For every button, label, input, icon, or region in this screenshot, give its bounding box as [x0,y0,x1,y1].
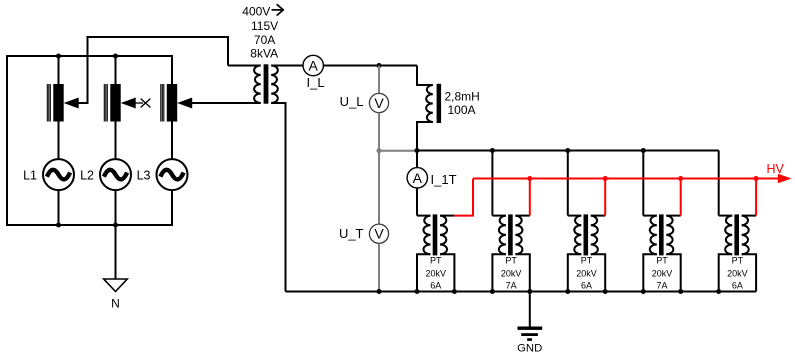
inductor L winding [426,85,433,122]
wire: PT4 primary top terminal [643,215,657,217]
transformer T secondary winding [271,66,278,104]
node: bus-gray junction [414,148,419,153]
wire: HV primary top bus [417,150,719,152]
node: red junction [527,176,532,181]
node: PT5 bottom-left junction [716,289,721,294]
wire: gray mid segment [378,113,380,225]
svg-text:100A: 100A [448,103,476,117]
wire: red riser [680,179,682,216]
source L3 sine [160,170,183,180]
svg-text:GND: GND [517,343,542,355]
wire: transformer T primary top terminal [228,65,261,67]
wire: PT2 secondary bottom to bus [515,254,529,291]
PT3 core [584,214,589,255]
wire: PT1 primary bottom to bus [417,254,431,291]
wire: phase L2 vertical [115,56,117,225]
wire: secondary bottom bus [286,291,757,293]
node: L2 bottom junction [113,222,118,227]
wire: PT1 secondary bottom to bus [440,254,454,291]
PT2 core [508,214,513,255]
wire: red riser [755,179,757,216]
node: gray to bottom bus [376,289,381,294]
svg-text:U_T: U_T [339,226,364,241]
node: PT4 bottom-left junction [641,289,646,294]
svg-text:U_L: U_L [340,94,364,109]
node: red junction [603,176,608,181]
wire: red riser [604,179,606,216]
wire: inductor bottom to bus [417,122,433,151]
probe bar L2 [110,84,120,122]
PT4 secondary winding [666,216,673,255]
source L2 circle [100,159,131,190]
PT5 secondary winding [742,216,749,255]
wire: phase L1 vertical [58,56,60,225]
wire: PT5 secondary top terminal [742,215,756,217]
probe bar L1 [53,84,63,122]
node: PT3 bottom-right junction [603,289,608,294]
PT3 secondary winding [591,216,598,255]
node: PT1 bottom-left junction [414,289,419,294]
PT5 primary winding [725,216,732,255]
svg-text:PT: PT [732,255,744,265]
node: U_L tap junction [376,63,381,68]
wire: bus drop to PT5 [718,151,720,216]
svg-text:20kV: 20kV [501,268,522,278]
ammeter I_L circle [303,55,323,75]
svg-text:7A: 7A [656,281,667,291]
terminal N triangle [104,279,128,292]
wire: PT4 primary bottom to bus [643,254,657,291]
wire: source loop box [7,56,172,225]
source L1 circle [43,159,74,190]
svg-text:L3: L3 [137,169,151,183]
wire: PT3 primary bottom to bus [568,254,582,291]
probe hatch lines L2 [104,84,107,122]
wire: ground drop [529,292,531,328]
voltmeter U_T circle [369,224,388,243]
wire: bus drop to PT3 [567,151,569,216]
wire: T secondary top to ammeter [271,65,303,67]
svg-text:2,8mH: 2,8mH [445,89,480,103]
svg-text:A: A [413,170,423,186]
svg-text:6A: 6A [581,281,592,291]
svg-text:A: A [309,58,319,74]
svg-text:7A: 7A [506,281,517,291]
wire: L3 arrow tail to transformer primary bottom [192,102,261,104]
node: red junction [754,176,759,181]
svg-text:V: V [374,226,384,242]
wire: PT2 primary top terminal [492,215,506,217]
wire: L2 arrow tail stub [135,102,143,104]
wire: PT3 secondary top terminal [591,215,605,217]
node: bus junction [641,148,646,153]
svg-text:V: V [374,95,384,111]
probe arrow L1 [64,98,79,109]
node: PT2 bottom-left junction [490,289,495,294]
svg-text:6A: 6A [430,281,441,291]
wire: PT4 secondary bottom to bus [666,254,680,291]
svg-text:400V: 400V [242,5,270,19]
wire: PT1 primary top terminal [417,215,431,217]
PT1 core [433,214,438,255]
node: PT1 bottom-right junction [452,289,457,294]
node: bus junction [490,148,495,153]
svg-text:20kV: 20kV [652,268,673,278]
node: red junction [678,176,683,181]
arrow: HV [778,174,792,183]
PT3 primary winding [574,216,581,255]
wire: gray tap to bus [379,150,417,152]
wire: drop to ammeter I_1T [416,151,418,168]
PT4 core [659,214,664,255]
node: L2 top junction [113,53,118,58]
svg-text:PT: PT [656,255,668,265]
svg-text:8kVA: 8kVA [250,47,278,61]
PT1 secondary winding [440,216,447,255]
svg-text:20kV: 20kV [425,268,446,278]
ammeter I_1T circle [407,168,427,188]
wire: PT4 secondary top terminal [666,215,680,217]
wire: bus drop to PT2 [491,151,493,216]
voltmeter U_L circle [369,93,388,112]
svg-text:6A: 6A [732,281,743,291]
svg-text:HV: HV [767,162,785,176]
wire: gray lower segment [378,243,380,291]
svg-text:20kV: 20kV [576,268,597,278]
wire: PT2 secondary top terminal [515,215,529,217]
wire: T secondary bottom to bus [271,103,285,292]
svg-text:PT: PT [430,255,442,265]
transformer T primary winding [254,66,261,104]
node: gray tap [376,148,381,153]
PT2 primary winding [499,216,506,255]
svg-text:L1: L1 [23,169,37,183]
PT4 primary winding [650,216,657,255]
probe arrow L3 [177,98,192,109]
wire: PT3 primary top terminal [568,215,582,217]
PT1 primary winding [423,216,430,255]
inductor L core [437,84,442,123]
wire: PT5 primary bottom to bus [719,254,733,291]
probe bar L3 [167,84,177,122]
wire: gray voltmeter drop upper [378,66,380,94]
PT2 secondary winding [515,216,522,255]
node: PT2 bottom-right junction [527,289,532,294]
wire: PT3 secondary bottom to bus [591,254,605,291]
wire: red PT1 jog [454,179,473,216]
probe hatch lines L3 [161,84,164,122]
svg-text:PT: PT [505,255,517,265]
ground symbol [518,327,543,341]
probe arrow L2 [121,98,136,109]
node: PT3 bottom-left junction [565,289,570,294]
source L2 sine [104,170,127,180]
svg-text:I_L: I_L [307,75,325,90]
wire: down to inductor [417,66,433,86]
probe hatch lines L1 [47,84,50,122]
node: bus junction [565,148,570,153]
svg-text:115V: 115V [251,19,278,33]
svg-text:20kV: 20kV [727,268,748,278]
wire: PT1 secondary top terminal [440,215,454,217]
node: L1 top junction [56,53,61,58]
wire: L1 arrow tail to transformer primary top [78,37,228,103]
wire: ammeter to corner [323,65,417,67]
wire: red riser [529,179,531,216]
wire: PT5 secondary bottom to bus [742,254,756,291]
wire: bus drop to PT4 [642,151,644,216]
node: PT4 bottom-right junction [678,289,683,294]
mark: L2 disconnect X [141,99,151,108]
wire: red HV bus [473,178,779,180]
wire: ammeter I_1T to PT1 [416,188,418,216]
source L3 circle [157,159,188,190]
wire: PT5 primary top terminal [719,215,733,217]
svg-text:I_1T: I_1T [431,172,457,187]
wire: PT2 primary bottom to bus [492,254,506,291]
wire: neutral N [115,225,117,279]
svg-text:L2: L2 [80,169,94,183]
svg-text:70A: 70A [254,33,275,47]
svg-text:N: N [111,297,120,311]
svg-text:PT: PT [581,255,593,265]
PT5 core [734,214,739,255]
transformer T core [264,64,269,103]
node: L1 bottom junction [56,222,61,227]
source L1 sine [47,170,70,180]
